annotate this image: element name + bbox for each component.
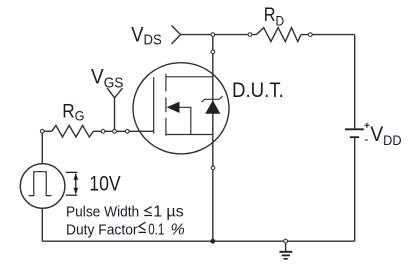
MOSFET channel dashed bar: [165, 74, 167, 136]
node: drain terminal: [211, 50, 215, 54]
svg-text:RD: RD: [264, 5, 284, 28]
svg-text:VDS: VDS: [131, 23, 161, 48]
node: R_D right terminal: [308, 33, 312, 37]
wire: gate horizontal right segment to MOSFET gate: [93, 130, 153, 132]
wire: drain/source vertical through D.U.T.: [212, 35, 214, 242]
MOSFET body arrow (points left): [167, 102, 180, 113]
junction dot at source/bottom wire: [210, 239, 215, 244]
op: D.U.T. MOSFET envelope circle: [133, 63, 229, 154]
svg-text:%: %: [171, 221, 185, 238]
dimension arrow for 10V: [66, 172, 78, 195]
battery V_DD minus plate: [350, 136, 359, 138]
svg-text:VDD: VDD: [370, 123, 401, 148]
node: gate terminal: [125, 129, 129, 133]
battery plus sign: [364, 123, 369, 128]
node: source terminal: [211, 166, 215, 170]
MOSFET gate bar: [153, 77, 155, 133]
svg-text:VGS: VGS: [91, 66, 123, 92]
svg-text:10V: 10V: [89, 173, 120, 196]
svg-text:0.1: 0.1: [148, 221, 164, 238]
wire: top horizontal (V_DS probe to R_D to right corner): [181, 34, 257, 36]
MOSFET drain connection: [166, 76, 213, 78]
MOSFET body connection with step: [179, 107, 191, 134]
ground symbol: [279, 241, 292, 259]
resistor R_G: [52, 125, 94, 137]
battery minus sign: [365, 139, 368, 141]
pulse generator waveform: [29, 172, 52, 196]
wire: right vertical (battery - down to bottom wire): [354, 138, 356, 241]
wire: left vertical (gate node down to pulse generator): [41, 131, 43, 164]
probe V_GS stem wire: [114, 98, 116, 132]
node terminals (open circles): [40, 33, 312, 243]
node: V_DS tap junction: [211, 33, 215, 37]
svg-text:Duty Factor: Duty Factor: [66, 221, 138, 238]
svg-text:Pulse Width: Pulse Width: [66, 204, 139, 221]
pulse generator V1 circle: [20, 164, 65, 209]
wire: top right segment after R_D: [301, 34, 355, 36]
MOSFET source connection: [166, 134, 213, 136]
svg-text:1: 1: [153, 204, 162, 221]
node: R_G right terminal: [101, 129, 105, 133]
wire: gate horizontal left segment: [42, 130, 51, 132]
probe V_DS symbol: [172, 26, 181, 45]
battery V_DD plus plate: [345, 128, 364, 130]
node: R_D left terminal: [248, 33, 252, 37]
wire: right vertical (top wire down to battery +): [354, 35, 356, 129]
body diode D1 triangle: [205, 100, 220, 113]
wire: left vertical (pulse generator to bottom wire): [41, 208, 43, 241]
node: R_G left terminal: [40, 129, 44, 133]
label pulse width limit: [144, 207, 152, 216]
wire: bottom horizontal: [42, 240, 354, 242]
svg-text:RG: RG: [62, 102, 84, 124]
svg-text:D.U.T.: D.U.T.: [232, 79, 284, 102]
resistor R_D: [256, 28, 301, 42]
body diode cathode bar with zener ticks: [202, 96, 223, 102]
probe V_GS symbol: [107, 88, 122, 98]
svg-text:µs: µs: [166, 204, 183, 221]
label duty factor limit: [139, 222, 147, 232]
node: V_GS tap: [113, 129, 117, 133]
node: ground junction: [284, 239, 288, 243]
